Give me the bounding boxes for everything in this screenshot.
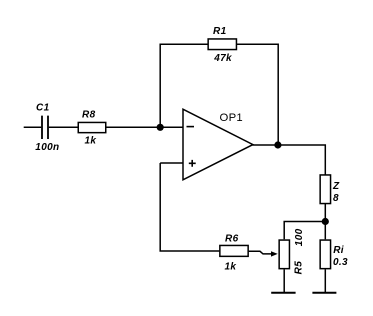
svg-text:C1: C1 <box>36 103 50 114</box>
svg-text:R6: R6 <box>225 234 239 245</box>
svg-text:Z: Z <box>332 181 340 192</box>
svg-text:8: 8 <box>333 193 339 204</box>
svg-text:Ri: Ri <box>333 245 344 256</box>
svg-text:R5: R5 <box>294 261 305 275</box>
svg-text:100: 100 <box>294 228 305 246</box>
svg-text:R1: R1 <box>213 26 227 37</box>
svg-text:OP1: OP1 <box>220 112 244 124</box>
svg-text:1k: 1k <box>225 261 237 272</box>
svg-text:0.3: 0.3 <box>333 257 348 268</box>
svg-text:100n: 100n <box>35 142 59 153</box>
svg-text:R8: R8 <box>82 110 96 121</box>
svg-text:1k: 1k <box>85 136 97 147</box>
svg-text:47k: 47k <box>213 53 232 64</box>
